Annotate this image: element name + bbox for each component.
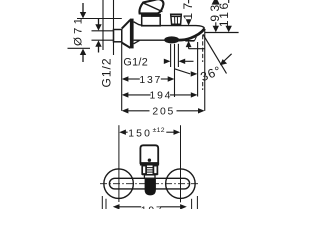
dimension 205 row	[122, 108, 205, 113]
dimension 137 row	[122, 76, 175, 81]
cartridge rim line	[142, 14, 161, 17]
dimension Ø71 arrows	[80, 3, 86, 62]
dimension 116	[216, 0, 232, 32]
svg-text:205: 205	[152, 107, 175, 118]
angle 36 diagonal line	[203, 34, 227, 73]
node extension line from nut	[121, 42, 123, 111]
spout under-beak curve	[178, 29, 205, 41]
dimension Ø71 extension top line	[77, 18, 122, 20]
escutcheon circle right	[166, 169, 196, 199]
svg-text:±12: ±12	[153, 127, 165, 134]
svg-text:197: 197	[141, 205, 164, 209]
faucet body capsule	[109, 178, 189, 189]
wire left connection centerline	[118, 125, 120, 202]
outlet stub front (dark)	[145, 179, 156, 195]
wire pipe bottom edge	[92, 39, 114, 41]
knob ribs	[174, 16, 176, 24]
bottom dimension extension lines	[101, 196, 103, 209]
leader to outlet line	[175, 69, 191, 74]
dimension 150±12 row	[119, 130, 180, 135]
escutcheon circle left	[104, 169, 134, 199]
svg-text:G1/2: G1/2	[99, 57, 113, 87]
cartridge base line	[142, 174, 158, 176]
wire wall extension line left	[102, 0, 104, 50]
svg-text:116: 116	[217, 0, 231, 27]
svg-text:Ø71: Ø71	[72, 15, 84, 46]
neck hatch lines	[146, 167, 153, 169]
wire stub extension left	[170, 44, 172, 67]
escutcheon face bar	[130, 19, 134, 49]
cartridge side block right	[153, 166, 157, 174]
dimension G1/2 arrows	[164, 59, 194, 64]
handle lever (cut at top)	[139, 0, 163, 13]
handle lever front	[140, 145, 158, 163]
escutcheon cone top	[122, 20, 131, 29]
svg-text:36°: 36°	[198, 63, 223, 84]
wire horizontal centerline	[100, 183, 200, 185]
angle 36 arc arrow	[223, 54, 232, 63]
body bottom chamfer	[134, 40, 140, 44]
cartridge block	[142, 15, 161, 26]
dimension Ø71 extension bottom line	[68, 47, 91, 49]
dimension 93	[212, 0, 220, 32]
union nut	[114, 30, 122, 42]
wire outlet extension line	[197, 42, 199, 97]
indicator dot	[148, 159, 151, 162]
wire stub centerline	[174, 44, 176, 97]
wire wall extension line right	[113, 0, 115, 55]
knob rim line	[171, 15, 181, 17]
aerator side	[194, 37, 196, 41]
wire angle reference line	[189, 48, 205, 50]
collar bar	[140, 163, 159, 166]
diverter knob	[171, 14, 182, 24]
dimension 17 arrows	[186, 0, 192, 49]
wire right connection centerline	[180, 125, 182, 202]
svg-text:G1/2: G1/2	[123, 56, 148, 68]
outlet stub oval under body	[165, 37, 179, 43]
wire stub extension right	[177, 44, 179, 67]
cartridge side block left	[142, 166, 146, 174]
faucet body top edge	[134, 22, 205, 29]
dimension G1/2 pipe arrows	[95, 19, 101, 53]
wire top reference line	[205, 32, 239, 34]
wire pipe top edge	[92, 30, 114, 32]
spout aerator face	[185, 40, 194, 42]
wire spout tip extension line	[204, 30, 206, 111]
svg-text:17: 17	[181, 0, 195, 20]
neck base	[144, 175, 155, 178]
dimension 194 row	[122, 92, 198, 97]
svg-text:194: 194	[150, 91, 173, 102]
svg-text:137: 137	[139, 75, 162, 86]
svg-text:150: 150	[128, 128, 152, 139]
escutcheon cone bottom	[122, 43, 131, 48]
handle inner line	[144, 3, 163, 11]
dimension 197 row	[113, 204, 187, 209]
wire outlet centerline dashed	[202, 35, 204, 62]
faucet body bottom edge	[134, 39, 186, 41]
